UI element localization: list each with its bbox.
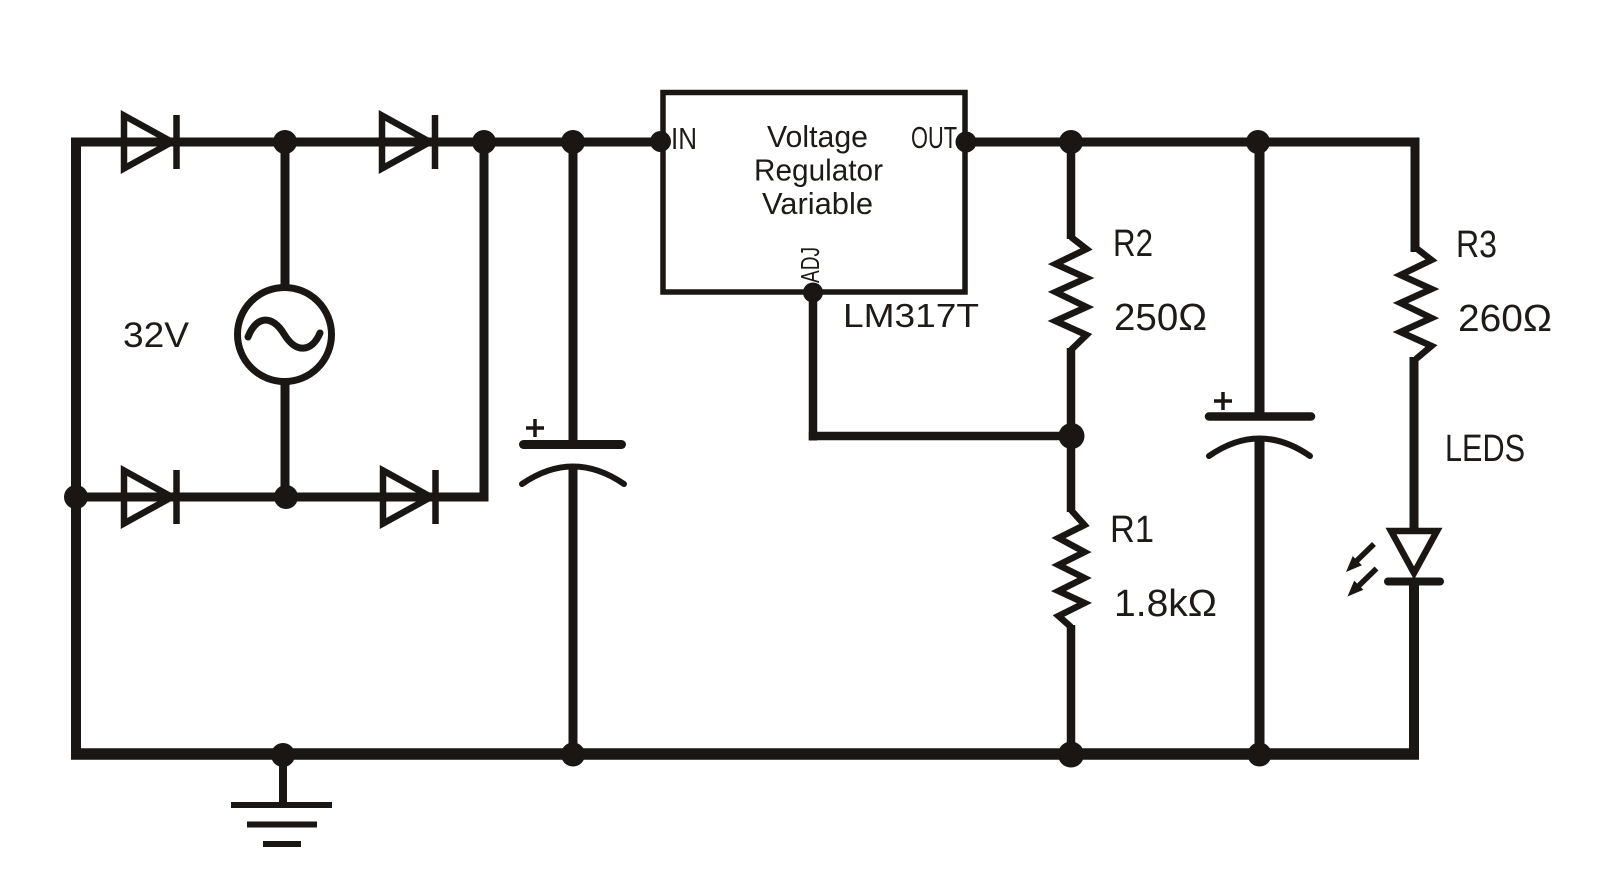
svg-text:Variable: Variable (762, 186, 873, 221)
svg-text:1.8kΩ: 1.8kΩ (1114, 583, 1217, 625)
svg-text:Voltage: Voltage (767, 119, 868, 154)
svg-text:250Ω: 250Ω (1114, 297, 1207, 339)
svg-text:260Ω: 260Ω (1458, 298, 1552, 340)
svg-text:LEDS: LEDS (1445, 428, 1525, 470)
svg-text:IN: IN (671, 121, 697, 156)
svg-text:OUT: OUT (911, 120, 957, 155)
svg-text:32V: 32V (123, 316, 190, 355)
svg-text:Regulator: Regulator (754, 153, 883, 188)
svg-text:ADJ: ADJ (795, 247, 825, 283)
svg-text:LM317T: LM317T (843, 297, 979, 334)
svg-text:R1: R1 (1110, 509, 1154, 551)
svg-text:R2: R2 (1113, 223, 1153, 265)
svg-text:R3: R3 (1456, 224, 1497, 266)
